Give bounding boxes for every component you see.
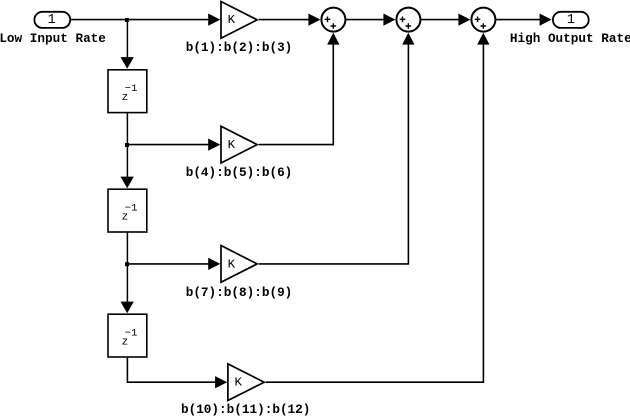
wire gain K4 to riser	[266, 45, 484, 383]
sum S1	[321, 8, 345, 32]
arrowhead into gain K1	[208, 14, 220, 26]
arrowhead into delay Z3	[121, 302, 134, 314]
sum S3	[471, 8, 495, 32]
wire node B down to delay Z2	[126, 145, 128, 178]
junction dot node C	[125, 262, 129, 266]
arrowhead into output port	[540, 14, 552, 26]
svg-text:Low Input Rate: Low Input Rate	[0, 31, 106, 46]
junction dot node A	[125, 18, 129, 22]
svg-text:High Output Rate: High Output Rate	[510, 31, 630, 46]
svg-text:1: 1	[48, 13, 56, 28]
wire node C down to delay Z3	[126, 264, 128, 303]
svg-text:b(1):b(2):b(3): b(1):b(2):b(3)	[186, 40, 293, 55]
arrowhead into sum S3	[458, 14, 470, 26]
svg-text:K: K	[228, 13, 236, 27]
arrowhead into sum S2 bottom	[402, 33, 414, 45]
sum S2	[396, 8, 420, 32]
gain K1 triangle	[221, 2, 257, 39]
gain K4 triangle	[228, 364, 264, 401]
arrowhead into sum S1 bottom	[327, 33, 339, 45]
svg-text:1: 1	[567, 13, 575, 28]
wire sum S2 to sum S3	[420, 19, 459, 21]
wire delay Z1 down to node B	[126, 113, 128, 144]
svg-text:b(10):b(11):b(12): b(10):b(11):b(12)	[181, 402, 310, 416]
gain K2 triangle	[221, 126, 257, 163]
wire delay Z2 down to node C	[126, 233, 128, 264]
svg-text:b(7):b(8):b(9): b(7):b(8):b(9)	[186, 285, 293, 300]
input port In1 oval	[34, 12, 70, 28]
wire node C to gain K3	[127, 263, 209, 265]
wire gain K3 to riser	[259, 45, 409, 264]
svg-text:K: K	[234, 376, 242, 390]
wire In1 to gain K1	[71, 19, 210, 21]
arrowhead into sum S3 bottom	[477, 33, 489, 45]
arrowhead into sum S2	[383, 14, 395, 26]
svg-text:−1: −1	[125, 203, 138, 215]
delay block Z3	[108, 314, 147, 357]
svg-text:b(4):b(5):b(6): b(4):b(5):b(6)	[186, 165, 293, 180]
arrowhead into sum S1	[308, 14, 320, 26]
wire node B to gain K2	[127, 144, 209, 146]
wire gain K1 to sum S1	[259, 19, 309, 21]
arrowhead into delay Z2	[121, 177, 134, 189]
wire sum S1 to sum S2	[345, 19, 384, 21]
arrowhead into gain K2	[208, 139, 220, 151]
junction dot node B	[125, 143, 129, 147]
wire sum S3 to output port	[495, 19, 540, 21]
output port Out1 oval	[553, 12, 589, 28]
delay block Z2	[108, 189, 147, 232]
wire gain K2 to riser	[259, 45, 334, 145]
wire delay Z3 down and right to gain K4	[127, 358, 216, 383]
arrowhead into gain K3	[208, 258, 220, 270]
arrowhead into gain K4	[215, 376, 227, 388]
svg-text:−1: −1	[125, 83, 138, 95]
svg-text:K: K	[228, 138, 236, 152]
delay block Z1	[108, 70, 147, 113]
arrowhead into delay Z1	[121, 57, 134, 69]
svg-text:−1: −1	[125, 328, 138, 340]
svg-text:K: K	[228, 257, 236, 271]
wire node A down to delay Z1	[126, 20, 128, 58]
gain K3 triangle	[221, 246, 257, 283]
